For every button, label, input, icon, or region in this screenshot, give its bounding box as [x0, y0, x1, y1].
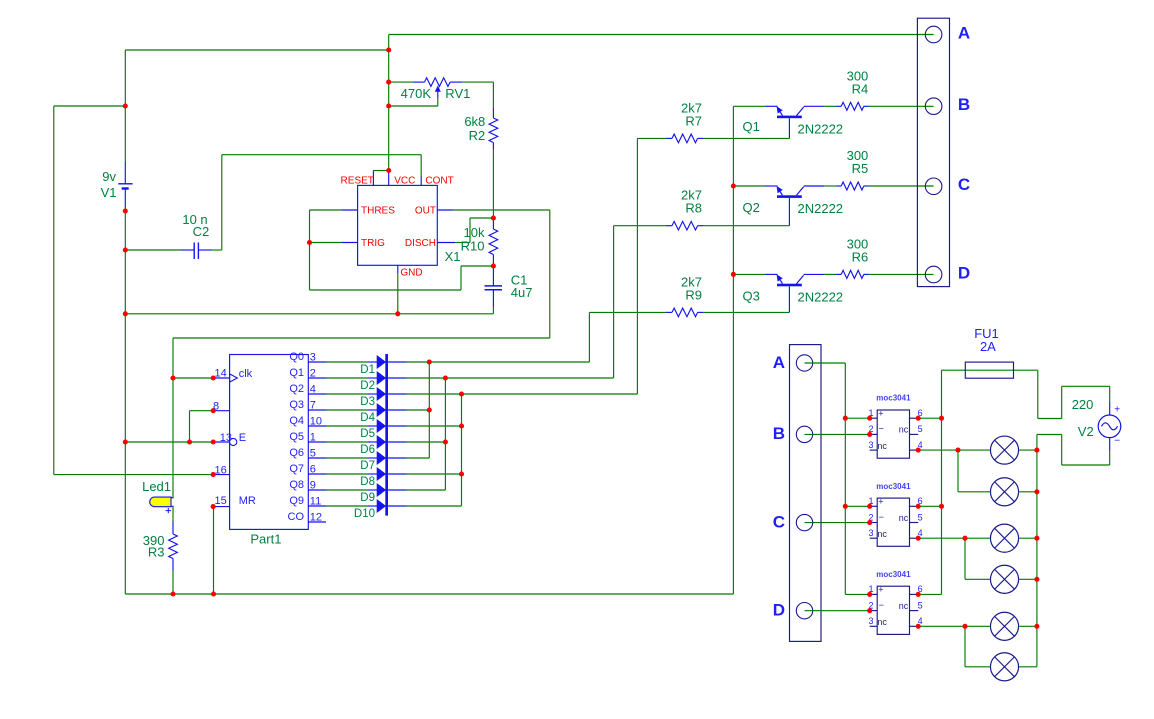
svg-text:5: 5 [918, 600, 923, 610]
svg-text:3: 3 [868, 528, 873, 538]
svg-text:D10: D10 [354, 508, 375, 520]
svg-text:CONT: CONT [425, 176, 453, 187]
svg-text:3: 3 [868, 440, 873, 450]
svg-text:R4: R4 [852, 81, 869, 96]
svg-text:D9: D9 [360, 492, 375, 504]
svg-text:5: 5 [918, 424, 923, 434]
svg-text:2N2222: 2N2222 [798, 290, 844, 305]
svg-text:Q1: Q1 [289, 367, 304, 379]
svg-text:D8: D8 [360, 476, 375, 488]
svg-text:V2: V2 [1078, 424, 1094, 439]
svg-text:nc: nc [877, 529, 887, 539]
svg-text:C: C [773, 512, 785, 531]
svg-text:8: 8 [213, 400, 219, 412]
svg-text:C2: C2 [193, 224, 210, 239]
svg-text:moc3041: moc3041 [876, 482, 911, 491]
svg-text:Q3: Q3 [289, 399, 304, 411]
svg-text:4u7: 4u7 [511, 285, 533, 300]
svg-text:15: 15 [215, 495, 227, 507]
svg-text:nc: nc [899, 601, 909, 611]
svg-text:A: A [773, 353, 785, 372]
svg-text:Q9: Q9 [289, 495, 304, 507]
svg-text:Q4: Q4 [289, 415, 304, 427]
svg-text:nc: nc [877, 617, 887, 627]
svg-text:B: B [773, 424, 785, 443]
svg-text:−: − [879, 512, 884, 522]
svg-text:D4: D4 [360, 412, 375, 424]
svg-text:clk: clk [239, 368, 253, 380]
svg-text:1: 1 [310, 432, 316, 444]
svg-text:9: 9 [310, 480, 316, 492]
svg-text:R9: R9 [685, 287, 702, 302]
svg-text:D3: D3 [360, 396, 375, 408]
svg-text:13: 13 [220, 432, 232, 444]
svg-text:+: + [878, 409, 883, 419]
svg-text:TRIG: TRIG [361, 238, 385, 249]
svg-text:R6: R6 [852, 249, 869, 264]
svg-text:THRES: THRES [361, 206, 395, 217]
svg-text:RESET: RESET [341, 176, 374, 187]
svg-text:10: 10 [310, 416, 322, 428]
svg-text:220: 220 [1072, 397, 1094, 412]
svg-text:DISCH: DISCH [405, 238, 436, 249]
svg-text:V1: V1 [101, 185, 117, 200]
svg-text:R5: R5 [852, 161, 869, 176]
svg-text:Q3: Q3 [743, 288, 760, 303]
svg-text:CO: CO [288, 511, 305, 523]
svg-text:Q5: Q5 [289, 431, 304, 443]
svg-text:Q1: Q1 [743, 119, 760, 134]
svg-text:4: 4 [310, 384, 316, 396]
svg-text:Part1: Part1 [250, 532, 281, 547]
svg-text:3: 3 [868, 616, 873, 626]
svg-text:X1: X1 [445, 249, 461, 264]
svg-text:D: D [958, 263, 970, 282]
svg-text:nc: nc [877, 441, 887, 451]
svg-text:D: D [773, 601, 785, 620]
svg-text:B: B [958, 95, 970, 114]
svg-text:5: 5 [918, 512, 923, 522]
svg-text:+: + [1114, 404, 1120, 415]
svg-text:D1: D1 [360, 364, 375, 376]
svg-text:−: − [879, 600, 884, 610]
svg-text:−: − [879, 424, 884, 434]
svg-text:Q2: Q2 [743, 200, 760, 215]
svg-text:moc3041: moc3041 [876, 570, 911, 579]
svg-text:+: + [878, 497, 883, 507]
svg-text:Q7: Q7 [289, 463, 304, 475]
svg-text:nc: nc [899, 425, 909, 435]
svg-text:14: 14 [215, 368, 227, 380]
svg-text:R2: R2 [469, 128, 486, 143]
svg-text:GND: GND [400, 268, 422, 279]
svg-text:R10: R10 [461, 238, 485, 253]
svg-text:D5: D5 [360, 428, 375, 440]
svg-text:R3: R3 [148, 545, 165, 560]
svg-text:R7: R7 [685, 113, 702, 128]
svg-text:D7: D7 [360, 460, 375, 472]
svg-text:9v: 9v [102, 169, 116, 184]
svg-text:470K: 470K [401, 86, 432, 101]
svg-text:7: 7 [310, 400, 316, 412]
svg-text:E: E [239, 432, 246, 444]
svg-text:C: C [958, 175, 970, 194]
svg-text:5: 5 [310, 448, 316, 460]
svg-text:D2: D2 [360, 380, 375, 392]
svg-text:Q8: Q8 [289, 479, 304, 491]
svg-text:16: 16 [215, 464, 227, 476]
svg-text:12: 12 [310, 512, 322, 524]
svg-text:VCC: VCC [394, 176, 415, 187]
svg-text:R8: R8 [685, 201, 702, 216]
svg-text:OUT: OUT [415, 206, 436, 217]
svg-text:D6: D6 [360, 444, 375, 456]
svg-text:2A: 2A [980, 339, 996, 354]
svg-text:Q0: Q0 [289, 351, 304, 363]
svg-text:−: − [1114, 436, 1120, 447]
svg-text:A: A [958, 23, 970, 42]
svg-text:2N2222: 2N2222 [798, 121, 844, 136]
svg-text:Q2: Q2 [289, 383, 304, 395]
svg-text:RV1: RV1 [445, 86, 470, 101]
svg-text:MR: MR [239, 495, 256, 507]
svg-text:2: 2 [310, 368, 316, 380]
svg-text:Led1: Led1 [142, 479, 171, 494]
svg-text:2N2222: 2N2222 [798, 201, 844, 216]
svg-text:11: 11 [310, 496, 321, 508]
svg-text:+: + [878, 585, 883, 595]
svg-text:moc3041: moc3041 [876, 394, 911, 403]
svg-text:nc: nc [899, 513, 909, 523]
svg-text:6: 6 [310, 464, 316, 476]
svg-text:3: 3 [310, 352, 316, 364]
svg-text:Q6: Q6 [289, 447, 304, 459]
